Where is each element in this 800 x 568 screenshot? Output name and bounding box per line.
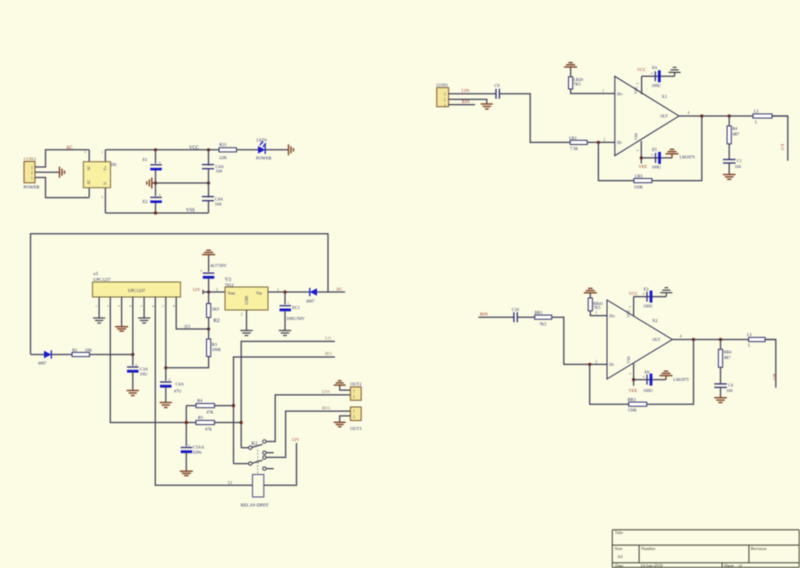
wire X1 OUT [679,115,788,117]
svg-text:100U: 100U [652,83,661,88]
svg-text:AC: AC [87,179,91,185]
svg-text:Size: Size [615,546,623,551]
svg-text:Title: Title [615,530,623,535]
junction [719,338,722,341]
wire U3 pin6 to relay coil [155,297,252,485]
svg-text:2: 2 [353,395,355,399]
capacitor C4A 104 lower [202,196,224,206]
svg-text:E4: E4 [652,65,658,70]
ground earth at U3 pin5 [138,318,150,323]
svg-text:E1: E1 [143,157,148,162]
wire 7812 Vin to D3 [268,291,310,293]
wire U3 pin5 [143,297,145,318]
svg-text:RO: RO [772,374,777,381]
svg-text:Vout: Vout [228,290,236,295]
svg-text:R21: R21 [219,142,226,147]
svg-text:1: 1 [595,311,597,315]
svg-text:CON1: CON1 [437,82,448,87]
svg-text:5: 5 [628,306,632,308]
svg-text:LR3: LR3 [635,174,644,179]
svg-text:2: 2 [595,360,597,364]
resistor R4 4R7 zobel [727,116,739,144]
svg-text:1: 1 [353,390,355,394]
wire OUT2 pin1 to ground [340,386,351,391]
resistor RR41 7K5 [588,293,603,311]
svg-text:47K: 47K [205,427,212,432]
wire throw2a to OUT3 pin1 RO1 [266,411,350,457]
svg-text:L3: L3 [747,332,752,337]
svg-text:8: 8 [172,305,176,307]
svg-text:1: 1 [353,410,355,414]
wire EC1 to ground [284,310,286,330]
svg-text:L1: L1 [228,481,232,485]
svg-text:4007: 4007 [306,299,314,304]
ground earth at CON1 pin2 [481,104,493,109]
svg-text:AC: AC [336,287,342,292]
wire U3 pin7 [165,297,167,382]
wire LO from opamp1 [241,341,335,447]
wire throw1a to OUT2 pin2 LO1 [266,395,350,442]
svg-text:150K: 150K [628,408,637,413]
wire D3 to AC stub [317,291,345,293]
wire L2 to LO stub [772,116,788,161]
svg-text:C1: C1 [737,158,742,163]
capacitor C4A 104 upper [202,164,225,174]
capacitor EC1 100U/50V [279,292,306,321]
junction [185,421,188,424]
svg-text:Number: Number [641,546,656,551]
svg-text:220u: 220u [193,450,203,455]
capacitor E1 [143,157,162,169]
junction [131,353,134,356]
svg-text:UPC1237: UPC1237 [93,277,111,282]
svg-text:4R7: 4R7 [732,131,739,136]
wire VEE to E6 and ground [634,379,666,381]
wire R21 to LED1 [237,149,259,151]
wire X2 VCC pin [633,297,635,317]
svg-text:RR3: RR3 [628,397,637,402]
relay K1 RELAY-DPDT [234,440,274,508]
svg-text:104: 104 [216,169,223,174]
svg-text:4: 4 [688,111,690,115]
svg-text:7812: 7812 [225,282,234,287]
diode D2 4007 [38,350,51,365]
svg-text:E6: E6 [645,370,651,375]
svg-text:AC: AC [87,165,91,171]
wire R4 left [186,405,196,407]
wire CON1 pin3 LIN to C9 [449,93,496,95]
connector CON3 POWER [24,156,42,189]
capacitor C4 104 [714,367,734,393]
wire feedback loop [590,364,629,404]
svg-text:E3: E3 [644,286,650,291]
ground earth up at E4 [669,67,681,76]
svg-text:3: 3 [444,93,446,97]
svg-text:5: 5 [140,305,144,307]
resistor LR20 7K5 [569,67,583,89]
svg-text:IN+: IN+ [617,92,623,96]
power ground up at E5 [666,149,679,158]
wire X1 VCC pin [641,76,643,94]
junction [154,148,157,151]
svg-text:3: 3 [117,305,121,307]
connector CON1 input [437,82,449,107]
svg-text:VSS: VSS [635,133,639,140]
bridge rectifier D6 [83,150,117,213]
svg-text:LO: LO [780,144,785,151]
op-amp X1 LM1875 [615,76,679,155]
svg-text:OUT2: OUT2 [350,382,361,387]
svg-text:LED1: LED1 [257,138,268,143]
junction [700,114,703,117]
junction [692,338,695,341]
svg-text:C4A: C4A [176,381,185,386]
junction [632,378,635,381]
svg-text:100U: 100U [643,303,652,308]
svg-text:RO: RO [325,351,332,356]
svg-text:VCC: VCC [637,67,646,72]
inductor L3 [747,332,765,347]
resistor R21 22K [219,142,237,160]
wire 4U7 to 12V node [208,277,210,303]
svg-text:VSS: VSS [186,209,195,214]
regulator V3 7812 [216,277,279,317]
op-amp X2 LM1875 [607,300,672,379]
junction [232,404,235,407]
power ground below C5AA [180,471,193,475]
svg-text:VCC: VCC [189,146,199,151]
resistor R1 10K [72,347,92,356]
svg-text:3: 3 [636,150,640,152]
ground earth below C4A [160,403,172,408]
svg-text:LIN: LIN [462,88,470,93]
svg-text:R2: R2 [213,318,220,324]
capacitor E6 100U [643,370,653,393]
wire RIN to C10 [478,316,513,318]
wire CON1 pin2 to ground [449,99,487,103]
connector OUT2 [350,382,361,401]
svg-text:VEE: VEE [639,164,648,169]
svg-text:LO1: LO1 [322,389,330,394]
capacitor C9 [494,83,500,99]
wire LED1 to ground [265,149,288,151]
wire RR1 to IN- [552,317,607,364]
svg-text:4: 4 [680,335,682,339]
svg-text:3: 3 [216,288,218,292]
svg-text:VCC: VCC [629,291,638,296]
capacitor C4A 47U [160,377,185,394]
svg-text:E5: E5 [652,147,658,152]
svg-text:VEE: VEE [629,388,638,393]
svg-text:VCC: VCC [635,86,639,94]
wire C5AA to ground [185,452,187,471]
svg-text:OUT: OUT [660,114,668,118]
wire C10 to RR1 [517,316,534,318]
wire OUT3 pin2 to ground [340,416,351,422]
junction [164,366,167,369]
svg-text:LR1: LR1 [569,135,577,140]
title block texts [615,530,767,568]
wire mid rail [156,182,209,184]
capacitor C1 104 [723,144,742,169]
wire R3 bottom to pin7 [166,357,209,368]
svg-text:4007: 4007 [38,361,46,366]
power ground above OUT2 [334,381,346,385]
wire VCC to E3 and ground [634,296,667,298]
wire X1 VEE pin [640,141,642,164]
svg-text:2: 2 [604,138,606,142]
svg-text:C10: C10 [512,307,520,312]
svg-text:100U/50V: 100U/50V [286,316,305,321]
ground earth sideways-right after LED1 [289,144,294,155]
capacitor E5 100U [651,147,661,170]
wire R2 to R3 [208,318,210,340]
svg-text:R5: R5 [198,415,204,420]
svg-text:6: 6 [151,305,155,307]
svg-text:47U: 47U [174,389,182,394]
wire detection loop top [31,234,329,354]
wire C4A rail [208,150,210,213]
wire 7812 GND pin [246,310,248,330]
svg-text:2: 2 [31,171,33,175]
resistor LR3 150K [634,174,652,190]
wire D2 anode [31,354,45,356]
svg-text:OUT: OUT [652,338,660,342]
svg-text:L: L [755,120,758,125]
svg-text:12V: 12V [193,287,202,292]
svg-text:7.5K: 7.5K [570,146,578,151]
wire U3 pin4 [132,297,134,367]
svg-text:IN-: IN- [609,363,615,367]
junction [207,290,210,293]
wire R5 right [215,422,242,424]
svg-text:3: 3 [628,373,632,375]
svg-text:2: 2 [106,305,110,307]
svg-text:X2: X2 [652,318,658,323]
wire 12V to 7812 [203,291,226,293]
svg-text:A4: A4 [617,554,623,559]
wire U3 pin1 [98,297,100,318]
svg-text:RIN: RIN [462,99,471,104]
resistor R2 3K9 [207,304,220,324]
resistor R5 47K [196,415,215,431]
IC U3 UPC1237 [93,271,181,307]
svg-text:LO: LO [325,336,332,341]
svg-text:47K: 47K [206,409,213,414]
svg-text:POWER: POWER [256,156,271,161]
svg-text:R1: R1 [72,347,77,352]
junction [597,141,600,144]
wire L3 to RO stub [765,340,776,388]
ground earth sideways-left between E1 E2 [147,178,156,189]
wire VSS rail [105,212,208,214]
svg-text:1: 1 [101,150,103,154]
wire CON3 pin3 to bridge AC top [41,150,89,167]
ground earth below C3A [127,391,139,396]
svg-text:RO1: RO1 [322,406,330,411]
svg-text:GND: GND [244,296,249,305]
wire ground to 4U7 [208,255,210,273]
LED LED1 POWER [256,138,271,161]
ground earth at U3 pin1 [93,318,105,323]
svg-text:R4: R4 [197,398,203,403]
junction [728,114,731,117]
svg-text:EC1: EC1 [292,305,300,310]
svg-text:VSS: VSS [627,356,631,363]
wire C4 to ground [720,387,722,397]
svg-text:10U: 10U [140,371,148,376]
svg-text:IN-: IN- [617,141,623,145]
svg-text:4: 4 [128,305,132,307]
svg-text:L2: L2 [754,109,759,114]
resistor R4 47K [196,398,215,414]
diode D3 4007 [306,288,317,304]
junction [154,211,157,214]
wire R5 left [186,422,196,424]
wire RO from opamp2 [234,357,335,464]
svg-text:104: 104 [726,388,733,393]
capacitor E4 100U [651,65,661,88]
svg-text:3: 3 [101,195,103,199]
svg-text:22K: 22K [219,155,227,160]
junction [154,181,157,184]
capacitor C5AA 220u [180,443,205,455]
capacitor E2 [143,192,162,204]
power ground below C4 [714,398,727,403]
svg-text:1: 1 [444,103,446,107]
svg-text:100U: 100U [652,165,661,170]
ground earth at 7812 GND [240,331,252,336]
svg-text:24-Jun-2018: 24-Jun-2018 [640,563,663,568]
svg-text:IN+: IN+ [609,314,615,318]
wire C9 to LR1 [499,94,570,143]
junction [283,290,286,293]
wire CON3 pin1 to bridge AC bottom [41,178,89,198]
svg-text:OUT3: OUT3 [350,426,362,431]
wire LR1 to IN- [587,141,615,143]
connector OUT3 [350,407,362,431]
wire U3 pin8 [176,297,208,329]
svg-text:10K: 10K [85,347,92,352]
power ground at U3 pin3 [115,327,128,331]
power ground up at E6 [660,371,673,379]
svg-text:VCC: VCC [627,309,631,317]
wire U3 pin2 long [110,297,186,423]
power ground above LR20 [564,63,577,67]
wire VCC to E4 and ground [642,75,675,77]
wire feedback to OUT [647,340,694,405]
wire CON3 pin2 to ground [41,171,59,173]
svg-text:CON3: CON3 [24,156,37,161]
svg-text:2: 2 [353,415,355,419]
junction [207,327,210,330]
junction [207,181,210,184]
capacitor E3 100U [643,286,653,308]
svg-text:LM1875: LM1875 [673,377,689,382]
title block frame [612,530,799,568]
svg-text:7K5: 7K5 [539,321,546,326]
power ground below C1 [723,175,736,180]
svg-text:150K: 150K [634,184,643,189]
wire coil right to 12V [264,443,297,485]
svg-text:4: 4 [84,195,86,199]
wire U3 pin3 [121,297,123,326]
junction [640,156,643,159]
svg-text:7K5: 7K5 [573,82,580,87]
wire X2 VEE pin [633,363,635,386]
junction [207,148,210,151]
ground earth up at E3 [660,288,672,297]
wire feedback loop [598,142,634,180]
svg-text:1: 1 [277,288,279,292]
svg-text:3T3: 3T3 [184,325,190,329]
wire CON1 pin1 RIN stub [449,104,476,106]
svg-text:12V: 12V [292,437,300,442]
svg-text:E2: E2 [143,199,148,204]
svg-text:RR1: RR1 [535,310,543,315]
power ground above 4U7 cap [202,250,215,254]
wire feedback to OUT [652,116,702,181]
svg-text:Sheet: Sheet [724,563,735,568]
svg-text:104: 104 [215,202,222,207]
svg-text:100K: 100K [212,347,221,352]
svg-text:D6: D6 [111,162,117,167]
power ground above RR41 [584,288,597,292]
svg-text:RELAY-DPDT: RELAY-DPDT [241,503,269,508]
resistor RR3 150K [628,397,647,412]
svg-text:Vin: Vin [256,290,262,295]
wire D2 to R1 [51,354,72,356]
svg-text:1: 1 [602,89,604,93]
inductor L2 [753,109,772,125]
svg-text:u3: u3 [93,271,98,276]
svg-text:AC: AC [66,146,73,151]
wire X2 OUT [672,339,776,341]
svg-text:RIN: RIN [480,311,489,316]
svg-text:of: of [739,563,743,568]
svg-text:2: 2 [241,313,243,317]
svg-text:C9: C9 [494,83,500,88]
ground earth sideways-right at CON3 pin2 [60,167,65,178]
resistor RR1 7K5 [535,310,552,326]
power ground below OUT3 [334,422,346,426]
svg-text:1: 1 [31,177,33,181]
ground earth below EC1 [279,331,291,336]
svg-text:100U: 100U [643,388,652,393]
svg-text:UPC1237: UPC1237 [128,288,146,293]
svg-text:5: 5 [636,83,640,85]
wire C1 to ground [728,163,730,174]
svg-text:3: 3 [31,166,33,170]
wire VEE to E5 and ground [641,157,672,159]
capacitor 4U7/50V [200,263,227,278]
svg-text:1: 1 [95,305,99,307]
resistor RR4 4R7 zobel [718,340,732,368]
wire LR20 to IN+ [571,89,615,94]
svg-text:Date: Date [615,563,623,568]
capacitor C10 [512,307,520,322]
svg-text:Revision: Revision [751,546,767,551]
wire VCC rail [105,149,219,151]
svg-text:L: L [748,342,751,347]
svg-text:2: 2 [84,150,86,154]
svg-text:POWER: POWER [24,185,41,190]
resistor LR1 7.5K [569,135,587,151]
wire bracket C5AA rail [185,406,187,448]
wire C4A to ground [165,386,167,402]
wire R1 to pin4 node [90,354,133,356]
wire C3A to ground [132,371,134,390]
